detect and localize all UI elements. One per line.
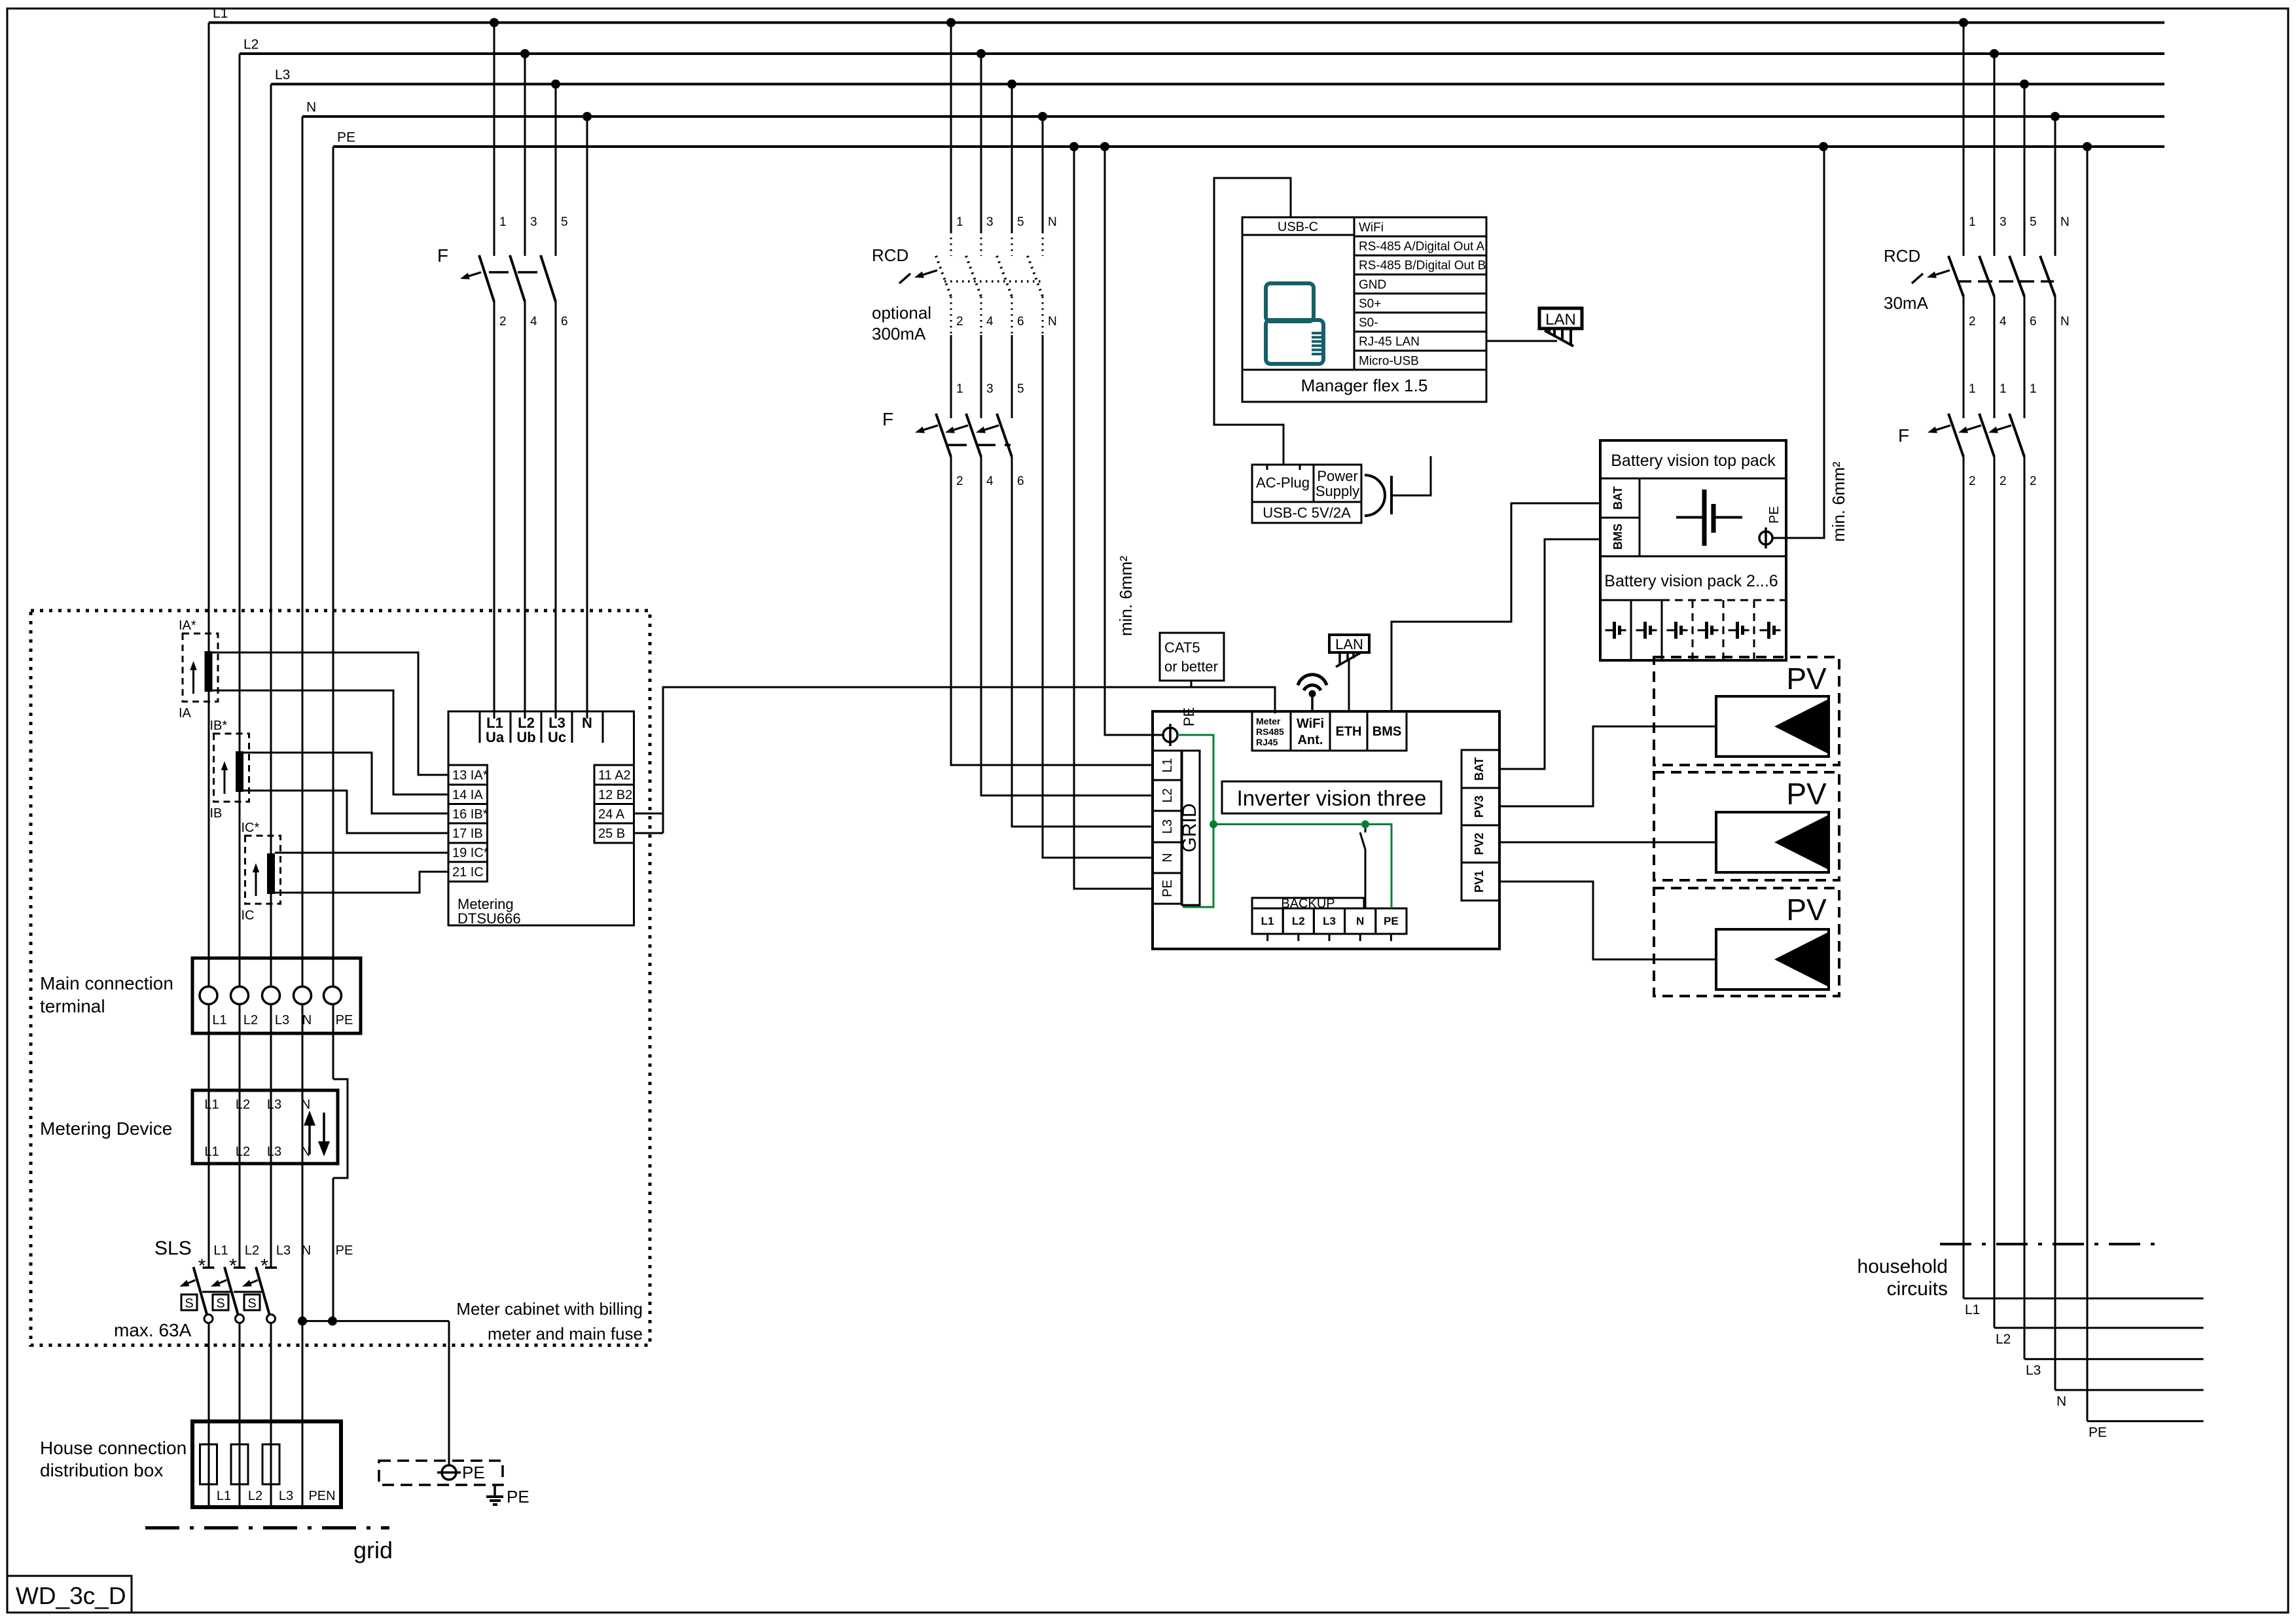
svg-text:F: F [1898, 425, 1909, 446]
svg-text:17 IB: 17 IB [452, 827, 483, 841]
svg-text:grid: grid [353, 1537, 393, 1563]
svg-text:L2: L2 [243, 37, 259, 52]
svg-text:*: * [260, 1255, 268, 1277]
svg-text:Ant.: Ant. [1298, 733, 1323, 747]
svg-text:L1: L1 [212, 1013, 226, 1027]
svg-text:L3: L3 [267, 1145, 281, 1159]
svg-text:PV: PV [1786, 893, 1827, 927]
svg-text:S0-: S0- [1359, 316, 1378, 330]
svg-text:1: 1 [499, 215, 507, 229]
svg-text:IA*: IA* [179, 618, 196, 633]
svg-text:Power: Power [1317, 468, 1357, 484]
svg-text:L2: L2 [1160, 788, 1175, 802]
svg-text:RS-485 B/Digital Out B: RS-485 B/Digital Out B [1359, 259, 1486, 273]
svg-text:4: 4 [2000, 315, 2007, 329]
svg-text:PE: PE [1767, 506, 1782, 524]
svg-text:GRID: GRID [1179, 804, 1200, 853]
svg-text:2: 2 [1969, 315, 1976, 329]
svg-text:AC-Plug: AC-Plug [1256, 474, 1310, 491]
svg-text:L1: L1 [213, 1243, 228, 1258]
svg-text:RJ45: RJ45 [1256, 737, 1278, 747]
svg-text:min. 6mm²: min. 6mm² [1829, 461, 1848, 542]
svg-text:1: 1 [2030, 382, 2037, 396]
svg-text:L1: L1 [1965, 1302, 1980, 1317]
svg-text:S: S [216, 1296, 224, 1311]
svg-text:N: N [302, 1243, 311, 1258]
svg-text:L2: L2 [243, 1013, 258, 1027]
svg-text:1: 1 [956, 382, 963, 396]
svg-text:DTSU666: DTSU666 [457, 910, 521, 927]
svg-text:L3: L3 [275, 1013, 289, 1027]
svg-text:PE: PE [507, 1487, 529, 1507]
svg-text:24 A: 24 A [598, 807, 625, 821]
svg-text:Main connection: Main connection [40, 973, 173, 993]
svg-text:300mA: 300mA [872, 324, 926, 344]
svg-text:PE: PE [337, 130, 355, 145]
svg-text:N: N [302, 1013, 312, 1027]
svg-text:WD_3c_D: WD_3c_D [16, 1582, 126, 1609]
svg-text:*: * [229, 1255, 237, 1277]
svg-text:S: S [185, 1296, 193, 1311]
svg-text:circuits: circuits [1887, 1278, 1948, 1300]
svg-text:3: 3 [2000, 215, 2007, 229]
svg-text:4: 4 [986, 474, 994, 488]
svg-text:1: 1 [1969, 215, 1976, 229]
svg-text:5: 5 [1017, 215, 1024, 229]
svg-text:1: 1 [2000, 382, 2007, 396]
svg-text:13 IA*: 13 IA* [452, 768, 488, 783]
svg-text:RS-485 A/Digital Out A: RS-485 A/Digital Out A [1359, 240, 1485, 254]
svg-text:BAT: BAT [1473, 757, 1486, 781]
svg-text:PEN: PEN [308, 1489, 335, 1503]
svg-text:16 IB*: 16 IB* [452, 807, 488, 821]
svg-text:2: 2 [499, 315, 507, 329]
svg-text:USB-C: USB-C [1278, 220, 1318, 234]
svg-text:IC*: IC* [242, 821, 260, 835]
svg-text:L3: L3 [267, 1097, 281, 1112]
svg-text:L2: L2 [245, 1243, 259, 1258]
svg-text:PV: PV [1786, 662, 1827, 696]
svg-text:L3: L3 [1323, 915, 1336, 927]
svg-text:2: 2 [956, 474, 963, 488]
svg-text:distribution box: distribution box [40, 1460, 163, 1480]
svg-text:Supply: Supply [1316, 483, 1359, 499]
svg-text:BMS: BMS [1611, 524, 1624, 550]
svg-text:PV2: PV2 [1473, 832, 1486, 855]
svg-text:PE: PE [336, 1243, 353, 1258]
svg-text:5: 5 [561, 215, 568, 229]
svg-text:L3: L3 [275, 67, 290, 82]
svg-text:2: 2 [956, 315, 963, 329]
svg-text:N: N [1356, 915, 1364, 927]
svg-text:L1: L1 [204, 1145, 219, 1159]
svg-text:PV3: PV3 [1473, 795, 1486, 817]
svg-text:N: N [1048, 315, 1057, 329]
svg-text:12 B2: 12 B2 [598, 788, 632, 802]
svg-text:11 A2: 11 A2 [598, 768, 631, 783]
svg-text:5: 5 [1017, 382, 1024, 396]
svg-text:Battery vision pack 2...6: Battery vision pack 2...6 [1604, 572, 1778, 590]
svg-text:RJ-45 LAN: RJ-45 LAN [1359, 335, 1420, 349]
svg-text:PE: PE [1384, 915, 1399, 927]
svg-text:PE: PE [1160, 880, 1175, 897]
svg-text:2: 2 [1969, 474, 1976, 488]
svg-text:min. 6mm²: min. 6mm² [1116, 556, 1136, 636]
svg-text:3: 3 [530, 215, 537, 229]
svg-text:household: household [1857, 1256, 1948, 1277]
svg-text:optional: optional [872, 303, 931, 323]
svg-text:IA: IA [179, 706, 192, 721]
svg-text:N: N [1048, 215, 1057, 229]
svg-text:L3: L3 [2026, 1363, 2041, 1378]
svg-text:L1: L1 [1261, 915, 1274, 927]
svg-text:F: F [437, 245, 448, 266]
svg-text:6: 6 [1017, 474, 1024, 488]
svg-text:or better: or better [1164, 658, 1218, 675]
svg-text:LAN: LAN [1545, 311, 1576, 329]
svg-text:PV1: PV1 [1473, 870, 1486, 893]
svg-text:meter and main fuse: meter and main fuse [488, 1324, 643, 1344]
svg-text:1: 1 [956, 215, 963, 229]
svg-text:IC: IC [242, 908, 255, 923]
svg-text:PV: PV [1786, 777, 1827, 811]
svg-text:Manager flex 1.5: Manager flex 1.5 [1301, 376, 1428, 395]
svg-text:L2: L2 [236, 1145, 250, 1159]
svg-text:N: N [1160, 853, 1175, 862]
svg-text:L1: L1 [217, 1489, 231, 1503]
svg-text:N: N [306, 100, 316, 115]
svg-text:N: N [301, 1097, 310, 1112]
svg-text:Ua: Ua [486, 729, 505, 745]
svg-text:L2: L2 [1292, 915, 1305, 927]
svg-text:L3: L3 [1160, 819, 1175, 834]
svg-text:L3: L3 [279, 1489, 293, 1503]
svg-text:25 B: 25 B [598, 827, 625, 841]
svg-text:6: 6 [561, 315, 568, 329]
svg-text:PE: PE [462, 1463, 485, 1482]
svg-text:L1: L1 [204, 1097, 219, 1112]
svg-text:WiFi: WiFi [1297, 717, 1324, 731]
svg-text:Meter: Meter [1256, 716, 1281, 726]
svg-text:House connection: House connection [40, 1438, 187, 1458]
svg-text:30mA: 30mA [1884, 293, 1929, 313]
svg-text:L1: L1 [1160, 758, 1175, 772]
svg-text:3: 3 [986, 382, 994, 396]
svg-text:USB-C 5V/2A: USB-C 5V/2A [1263, 505, 1351, 521]
svg-text:N: N [2060, 315, 2070, 329]
svg-text:PE: PE [2089, 1425, 2107, 1440]
svg-text:4: 4 [530, 315, 537, 329]
svg-text:IB: IB [210, 806, 223, 821]
svg-text:RCD: RCD [1884, 246, 1920, 266]
svg-text:WiFi: WiFi [1359, 221, 1384, 235]
svg-text:*: * [198, 1255, 206, 1277]
svg-text:CAT5: CAT5 [1164, 639, 1200, 656]
svg-text:RS485: RS485 [1256, 726, 1284, 737]
svg-text:3: 3 [986, 215, 994, 229]
svg-text:21 IC: 21 IC [452, 865, 484, 880]
svg-text:Meter cabinet with billing: Meter cabinet with billing [456, 1299, 643, 1319]
svg-text:2: 2 [2000, 474, 2007, 488]
svg-text:6: 6 [2030, 315, 2037, 329]
svg-text:max. 63A: max. 63A [114, 1320, 192, 1340]
svg-text:PE: PE [1181, 707, 1197, 726]
svg-text:Metering Device: Metering Device [40, 1118, 172, 1139]
svg-text:LAN: LAN [1335, 636, 1363, 652]
svg-text:6: 6 [1017, 315, 1024, 329]
svg-text:L3: L3 [276, 1243, 291, 1258]
svg-text:N: N [2060, 215, 2070, 229]
svg-text:ETH: ETH [1336, 724, 1362, 739]
svg-text:14 IA: 14 IA [452, 788, 483, 802]
svg-text:Battery vision top pack: Battery vision top pack [1611, 452, 1776, 470]
svg-text:terminal: terminal [40, 996, 105, 1016]
svg-text:Ub: Ub [516, 729, 535, 745]
svg-text:GND: GND [1359, 278, 1386, 292]
svg-text:Inverter vision three: Inverter vision three [1237, 786, 1427, 810]
svg-text:19 IC*: 19 IC* [452, 846, 489, 861]
svg-text:L1: L1 [213, 6, 228, 21]
svg-text:SLS: SLS [154, 1238, 192, 1259]
svg-text:IB*: IB* [210, 719, 228, 733]
svg-text:L2: L2 [1996, 1332, 2011, 1347]
svg-text:4: 4 [986, 315, 994, 329]
svg-text:L2: L2 [248, 1489, 262, 1503]
svg-text:BMS: BMS [1372, 724, 1401, 739]
svg-text:N: N [582, 715, 592, 731]
svg-text:L2: L2 [236, 1097, 250, 1112]
svg-text:Uc: Uc [548, 729, 566, 745]
svg-text:BAT: BAT [1611, 486, 1624, 510]
svg-text:Micro-USB: Micro-USB [1359, 354, 1419, 368]
svg-text:1: 1 [1969, 382, 1976, 396]
svg-text:S: S [247, 1296, 256, 1311]
svg-text:N: N [2056, 1394, 2066, 1409]
svg-text:5: 5 [2030, 215, 2037, 229]
svg-text:PE: PE [336, 1013, 353, 1027]
svg-text:F: F [882, 409, 893, 429]
svg-text:RCD: RCD [872, 245, 908, 265]
svg-text:S0+: S0+ [1359, 297, 1381, 311]
svg-text:2: 2 [2030, 474, 2037, 488]
